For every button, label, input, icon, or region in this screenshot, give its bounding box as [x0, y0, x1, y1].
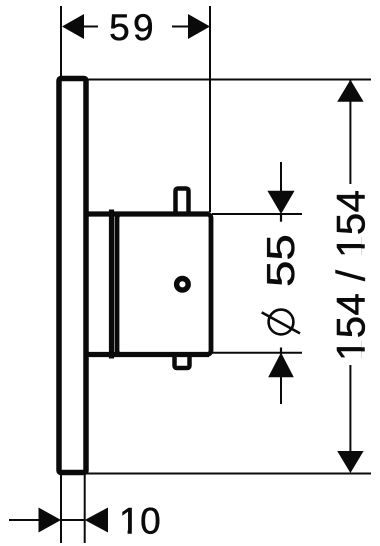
- dim 59: left arrow: [62, 14, 84, 39]
- dim 154/154: down arrow: [337, 451, 363, 473]
- dim 154/154: upper line: [349, 80, 351, 184]
- dim 10: right extension line: [84, 475, 86, 543]
- top tab: [176, 189, 189, 216]
- dim D55: bottom extension line: [212, 352, 302, 354]
- dim 10: middle line: [61, 519, 85, 521]
- dim 59: right stub: [172, 26, 189, 28]
- dim D55: lower line: [280, 376, 282, 404]
- dim 154/154: lower line: [349, 365, 351, 451]
- serif patches for digit 1 glyphs: [121, 236, 366, 535]
- wire top rail (154 extension line, top): [86, 79, 371, 81]
- dim D55: upper line: [280, 162, 282, 193]
- dim D55: diameter symbol: [269, 310, 294, 335]
- svg-text:55: 55: [260, 234, 303, 287]
- dim 59: right arrow: [188, 14, 210, 39]
- dim 10: left arrow: [39, 508, 62, 533]
- dim D55: up arrow: [268, 353, 294, 378]
- wall plate (escutcheon, side view): [59, 79, 86, 473]
- dim 59: left extension line: [60, 6, 62, 76]
- dim 10: right arrow: [85, 508, 108, 533]
- dim D55: down arrow: [267, 191, 294, 214]
- dim 59: left stub: [82, 26, 98, 28]
- svg-text:10: 10: [119, 501, 161, 542]
- dim 59: right extension line: [209, 6, 211, 212]
- dim 10: leader line: [9, 519, 40, 521]
- screw hole: [177, 279, 189, 291]
- collar edge line: [109, 210, 114, 359]
- bottom tab: [175, 353, 190, 368]
- svg-text:59: 59: [109, 7, 157, 48]
- collar bottom line: [86, 352, 209, 357]
- dim 154/154: up arrow: [337, 80, 363, 102]
- valve body: [117, 214, 211, 355]
- svg-text:154 / 154: 154 / 154: [330, 190, 374, 361]
- dim D55: top extension line: [212, 213, 302, 215]
- dim 10: left extension line: [60, 475, 62, 543]
- collar top line: [86, 211, 209, 216]
- wire bottom rail (154 extension line, bottom): [86, 473, 371, 475]
